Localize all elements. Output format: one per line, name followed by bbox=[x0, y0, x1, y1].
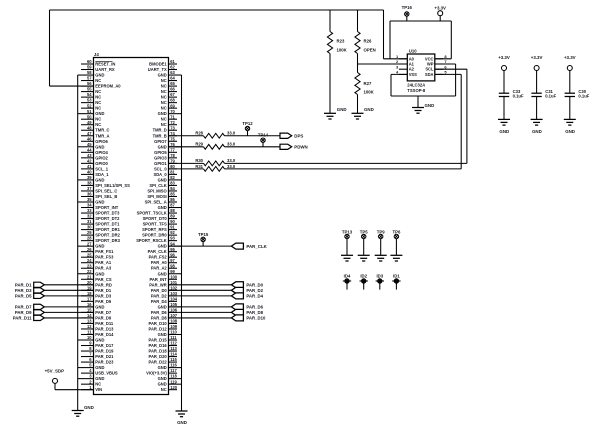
capacitor C30 bbox=[565, 71, 590, 120]
svg-text:PAR_D4: PAR_D4 bbox=[246, 294, 263, 299]
svg-text:ID3: ID3 bbox=[376, 274, 383, 279]
svg-text:SPORT_DT2: SPORT_DT2 bbox=[95, 216, 120, 221]
svg-text:GND: GND bbox=[158, 111, 167, 116]
svg-text:19: 19 bbox=[87, 285, 92, 290]
svg-text:90: 90 bbox=[170, 219, 175, 224]
svg-text:PAR_D23: PAR_D23 bbox=[95, 360, 114, 365]
svg-text:SPI_CLK: SPI_CLK bbox=[149, 183, 166, 188]
svg-text:PAR_A0: PAR_A0 bbox=[151, 260, 168, 265]
svg-text:106: 106 bbox=[170, 308, 178, 313]
port PAR_D3 bbox=[15, 288, 44, 293]
wire PAR_D0 net bbox=[169, 284, 232, 286]
port PDWN bbox=[280, 144, 308, 149]
svg-text:SPI_SEL_C: SPI_SEL_C bbox=[95, 188, 117, 193]
svg-text:32: 32 bbox=[87, 214, 92, 219]
svg-text:0.1uF: 0.1uF bbox=[578, 94, 589, 99]
svg-text:PAR_D10: PAR_D10 bbox=[149, 321, 168, 326]
svg-text:R29: R29 bbox=[195, 142, 203, 147]
svg-text:56: 56 bbox=[87, 81, 92, 86]
svg-text:SPORT_TSCLK: SPORT_TSCLK bbox=[137, 211, 167, 216]
wire SDA net bbox=[225, 74, 462, 168]
svg-text:0.1uF: 0.1uF bbox=[513, 94, 524, 99]
svg-text:54: 54 bbox=[87, 92, 92, 97]
svg-text:GND: GND bbox=[158, 382, 167, 387]
ground (C31) bbox=[531, 119, 543, 133]
svg-text:+3.3V: +3.3V bbox=[564, 55, 576, 60]
wire PAR_D3 net bbox=[44, 289, 93, 291]
svg-text:69: 69 bbox=[170, 103, 175, 108]
svg-text:GND: GND bbox=[158, 365, 167, 370]
wire PAR_D9 net bbox=[44, 311, 93, 313]
svg-text:USB_VBUS: USB_VBUS bbox=[95, 371, 118, 376]
svg-text:53: 53 bbox=[87, 98, 92, 103]
svg-text:TMR_A: TMR_A bbox=[95, 133, 109, 138]
svg-text:GND: GND bbox=[177, 420, 187, 425]
svg-text:39: 39 bbox=[87, 175, 92, 180]
svg-text:R30: R30 bbox=[195, 158, 203, 163]
svg-text:GPIO1: GPIO1 bbox=[154, 161, 167, 166]
svg-text:PAR_D11: PAR_D11 bbox=[13, 315, 32, 320]
svg-text:75: 75 bbox=[170, 136, 175, 141]
svg-text:R26: R26 bbox=[364, 38, 372, 43]
svg-text:55: 55 bbox=[87, 87, 92, 92]
svg-text:GND: GND bbox=[95, 365, 104, 370]
svg-text:64: 64 bbox=[170, 76, 175, 81]
svg-text:PAR_D9: PAR_D9 bbox=[95, 315, 112, 320]
svg-text:30: 30 bbox=[87, 225, 92, 230]
svg-text:28: 28 bbox=[87, 236, 92, 241]
svg-text:27: 27 bbox=[87, 241, 92, 246]
svg-text:J4: J4 bbox=[94, 52, 99, 57]
connector J4 (SDP 120-pin) bbox=[78, 52, 182, 394]
svg-text:76: 76 bbox=[170, 142, 175, 147]
svg-text:117: 117 bbox=[170, 368, 177, 373]
resistor R30 bbox=[169, 158, 236, 166]
svg-text:PAR_D9: PAR_D9 bbox=[15, 310, 32, 315]
svg-text:59: 59 bbox=[87, 65, 92, 70]
svg-text:98: 98 bbox=[170, 263, 175, 268]
IC U10 24LC32A bbox=[407, 49, 435, 93]
svg-text:NC: NC bbox=[161, 95, 167, 100]
svg-text:NC: NC bbox=[161, 106, 167, 111]
svg-text:NC: NC bbox=[161, 84, 167, 89]
svg-text:NC: NC bbox=[95, 100, 101, 105]
svg-text:35: 35 bbox=[87, 197, 92, 202]
svg-text:18: 18 bbox=[87, 291, 92, 296]
port PAR_D4 bbox=[231, 293, 263, 299]
svg-text:96: 96 bbox=[170, 252, 175, 257]
svg-text:PAR_D3: PAR_D3 bbox=[95, 293, 112, 298]
svg-text:34: 34 bbox=[87, 203, 92, 208]
svg-text:120: 120 bbox=[170, 385, 178, 390]
svg-text:UART_TX: UART_TX bbox=[148, 67, 167, 72]
svg-text:114: 114 bbox=[170, 352, 177, 357]
svg-text:92: 92 bbox=[170, 230, 175, 235]
svg-text:101: 101 bbox=[170, 280, 178, 285]
svg-text:PAR_D5: PAR_D5 bbox=[15, 293, 32, 298]
svg-text:PAR_FS1: PAR_FS1 bbox=[95, 249, 114, 254]
svg-text:44: 44 bbox=[87, 147, 92, 152]
svg-text:113: 113 bbox=[170, 346, 177, 351]
port PAR_D0 bbox=[231, 282, 263, 288]
wire PAR_D4 net bbox=[169, 295, 232, 297]
ground (R23) bbox=[324, 107, 347, 119]
wire EEPROM_A0 net top rail bbox=[50, 10, 408, 86]
svg-text:107: 107 bbox=[170, 313, 178, 318]
test point TP15 bbox=[202, 242, 204, 247]
svg-text:57: 57 bbox=[87, 76, 92, 81]
wire TP6 to ground bbox=[395, 239, 397, 256]
svg-text:115: 115 bbox=[170, 357, 177, 362]
wire PAR_D5 net bbox=[44, 295, 93, 297]
svg-text:70: 70 bbox=[170, 109, 175, 114]
svg-text:VSS: VSS bbox=[409, 72, 417, 77]
svg-text:16: 16 bbox=[87, 302, 92, 307]
svg-text:SPORT_RFS: SPORT_RFS bbox=[142, 227, 167, 232]
svg-text:GND: GND bbox=[95, 244, 104, 249]
svg-text:ID2: ID2 bbox=[360, 274, 367, 279]
ground (R27) bbox=[352, 107, 374, 119]
wire GND bus right bbox=[181, 75, 183, 411]
svg-text:GPIO6: GPIO6 bbox=[95, 139, 108, 144]
svg-text:NC: NC bbox=[161, 100, 167, 105]
svg-text:GND: GND bbox=[95, 271, 104, 276]
svg-text:PAR_FS2: PAR_FS2 bbox=[149, 255, 168, 260]
svg-text:PAR_D1: PAR_D1 bbox=[95, 288, 112, 293]
svg-text:GND: GND bbox=[158, 73, 167, 78]
svg-text:36: 36 bbox=[87, 192, 92, 197]
svg-text:0.1uF: 0.1uF bbox=[545, 94, 556, 99]
wire DPS net bbox=[225, 135, 281, 137]
svg-text:SCL_0: SCL_0 bbox=[154, 166, 167, 171]
power +3.3V (C30) bbox=[564, 55, 576, 71]
svg-text:SPORT_DR3: SPORT_DR3 bbox=[95, 238, 120, 243]
wire VIN net bbox=[55, 383, 94, 389]
ground (U10) bbox=[412, 103, 434, 113]
svg-text:PAR_D16: PAR_D16 bbox=[149, 343, 168, 348]
ground (TP6) bbox=[390, 255, 402, 261]
test point TP6 bbox=[392, 229, 400, 238]
test point TP13 bbox=[342, 229, 353, 238]
svg-text:104: 104 bbox=[170, 296, 178, 301]
svg-text:100K: 100K bbox=[337, 48, 348, 53]
svg-text:GPIO5: GPIO5 bbox=[154, 150, 167, 155]
port PAR_CLK bbox=[231, 243, 267, 249]
svg-text:GND: GND bbox=[84, 405, 94, 410]
svg-text:PAR_D22: PAR_D22 bbox=[149, 360, 168, 365]
svg-text:49: 49 bbox=[87, 120, 92, 125]
svg-text:72: 72 bbox=[170, 120, 175, 125]
wire PAR_CLK net bbox=[169, 245, 232, 247]
svg-text:NC: NC bbox=[95, 78, 101, 83]
svg-text:SDA: SDA bbox=[425, 72, 434, 77]
svg-text:15: 15 bbox=[87, 308, 92, 313]
svg-text:29: 29 bbox=[87, 230, 92, 235]
svg-text:PAR_D0: PAR_D0 bbox=[151, 288, 168, 293]
svg-text:+3.3V: +3.3V bbox=[498, 55, 510, 60]
svg-text:17: 17 bbox=[87, 296, 92, 301]
wire A1 net bbox=[358, 63, 408, 65]
svg-text:31: 31 bbox=[87, 219, 92, 224]
resistor R31 bbox=[169, 164, 236, 171]
svg-text:SPORT_TFS: SPORT_TFS bbox=[143, 222, 167, 227]
svg-text:TP5: TP5 bbox=[360, 229, 368, 234]
svg-text:GND: GND bbox=[95, 73, 104, 78]
svg-text:41: 41 bbox=[87, 164, 92, 169]
svg-text:PDWN: PDWN bbox=[294, 145, 307, 150]
svg-text:BMODE1: BMODE1 bbox=[149, 62, 167, 67]
svg-text:26: 26 bbox=[87, 247, 92, 252]
svg-text:80: 80 bbox=[170, 164, 175, 169]
U10 pin stubs and numbers bbox=[396, 54, 447, 75]
svg-text:PAR_A1: PAR_A1 bbox=[95, 260, 112, 265]
svg-text:GND: GND bbox=[565, 129, 575, 134]
ground (right bus) bbox=[176, 411, 188, 425]
svg-text:PAR_D13: PAR_D13 bbox=[95, 326, 114, 331]
svg-text:111: 111 bbox=[170, 335, 177, 340]
svg-text:R23: R23 bbox=[337, 38, 345, 43]
node ID1 bbox=[392, 274, 400, 290]
svg-text:67: 67 bbox=[170, 92, 175, 97]
svg-text:42: 42 bbox=[87, 158, 92, 163]
svg-text:GPIO3: GPIO3 bbox=[154, 155, 167, 160]
svg-text:GPIO0: GPIO0 bbox=[95, 161, 108, 166]
svg-text:SPORT_RSCLK: SPORT_RSCLK bbox=[136, 238, 167, 243]
svg-text:GPIO4: GPIO4 bbox=[95, 150, 108, 155]
wire PDWN net bbox=[225, 146, 281, 148]
svg-text:TP14: TP14 bbox=[258, 133, 269, 138]
wire TP9 to ground bbox=[380, 239, 382, 256]
svg-text:102: 102 bbox=[170, 285, 178, 290]
wire U10 VCC top loop bbox=[390, 16, 451, 59]
ground (left bus) bbox=[72, 405, 94, 416]
wire TP13 to ground bbox=[346, 239, 348, 256]
svg-text:66: 66 bbox=[170, 87, 175, 92]
wire TP5 to ground bbox=[363, 239, 365, 256]
svg-text:PAR_RD: PAR_RD bbox=[95, 282, 112, 287]
svg-text:GND: GND bbox=[158, 376, 167, 381]
svg-text:33.0: 33.0 bbox=[227, 158, 236, 163]
svg-text:SDA_1: SDA_1 bbox=[95, 172, 109, 177]
wire PAR_D8 net bbox=[169, 311, 232, 313]
svg-text:VIO(+3.3V): VIO(+3.3V) bbox=[146, 371, 167, 376]
svg-text:23: 23 bbox=[87, 263, 92, 268]
svg-text:58: 58 bbox=[87, 70, 92, 75]
svg-text:PAR_INT: PAR_INT bbox=[149, 277, 167, 282]
svg-text:PAR_CLK: PAR_CLK bbox=[246, 244, 267, 249]
port PAR_D5 bbox=[15, 293, 44, 298]
svg-text:85: 85 bbox=[170, 192, 175, 197]
svg-text:79: 79 bbox=[170, 158, 175, 163]
svg-text:22: 22 bbox=[87, 269, 92, 274]
svg-text:GND: GND bbox=[158, 205, 167, 210]
wire PAR_D2 net bbox=[169, 289, 232, 291]
test point TP12 bbox=[247, 131, 249, 136]
svg-text:83: 83 bbox=[170, 181, 175, 186]
svg-text:74: 74 bbox=[170, 131, 175, 136]
svg-text:PAR_D6: PAR_D6 bbox=[151, 310, 168, 315]
svg-text:GND: GND bbox=[425, 103, 435, 108]
svg-text:SPORT_DR2: SPORT_DR2 bbox=[95, 233, 120, 238]
wire PAR_D6 net bbox=[169, 306, 232, 308]
capacitor C33 bbox=[499, 71, 524, 120]
svg-text:R31: R31 bbox=[195, 164, 203, 169]
svg-text:38: 38 bbox=[87, 181, 92, 186]
svg-text:GND: GND bbox=[95, 304, 104, 309]
port PAR_D7 bbox=[15, 304, 44, 309]
svg-text:TP15: TP15 bbox=[198, 232, 209, 237]
svg-text:10: 10 bbox=[87, 335, 92, 340]
svg-text:82: 82 bbox=[170, 175, 175, 180]
svg-text:PAR_D8: PAR_D8 bbox=[246, 310, 263, 315]
ground (TP5) bbox=[358, 255, 370, 261]
svg-text:GND: GND bbox=[158, 304, 167, 309]
svg-text:116: 116 bbox=[170, 363, 177, 368]
svg-text:37: 37 bbox=[87, 186, 92, 191]
resistor R27 bbox=[355, 73, 375, 114]
svg-text:SPI_MISO: SPI_MISO bbox=[147, 188, 167, 193]
svg-text:SDA_0: SDA_0 bbox=[153, 172, 167, 177]
svg-text:81: 81 bbox=[170, 170, 175, 175]
svg-text:NC: NC bbox=[161, 122, 167, 127]
svg-text:DPS: DPS bbox=[294, 133, 303, 138]
svg-text:NC: NC bbox=[95, 122, 101, 127]
svg-text:R27: R27 bbox=[364, 81, 372, 86]
svg-text:PAR_D18: PAR_D18 bbox=[149, 349, 168, 354]
svg-text:SPORT_DT3: SPORT_DT3 bbox=[95, 211, 120, 216]
test point TP14 bbox=[262, 142, 264, 146]
svg-text:91: 91 bbox=[170, 225, 175, 230]
svg-text:+3.3V: +3.3V bbox=[434, 5, 446, 10]
test point TP16 bbox=[402, 5, 413, 16]
power +3.3V (U10) bbox=[434, 5, 446, 15]
svg-text:PAR_WR: PAR_WR bbox=[149, 282, 166, 287]
svg-text:GND: GND bbox=[95, 338, 104, 343]
wire GND bus left bbox=[77, 75, 79, 410]
svg-text:PAR_D5: PAR_D5 bbox=[95, 299, 112, 304]
port PAR_D9 bbox=[15, 310, 44, 315]
svg-text:PAR_D8: PAR_D8 bbox=[151, 315, 168, 320]
svg-text:33.0: 33.0 bbox=[227, 164, 236, 169]
svg-text:GND: GND bbox=[95, 200, 104, 205]
svg-text:GPIO7: GPIO7 bbox=[154, 139, 167, 144]
svg-text:14: 14 bbox=[87, 313, 92, 318]
svg-text:24LC32A: 24LC32A bbox=[407, 82, 425, 87]
node ID4 bbox=[343, 274, 351, 290]
svg-text:GND: GND bbox=[95, 111, 104, 116]
test point TP9 bbox=[377, 229, 385, 238]
svg-text:NC: NC bbox=[95, 95, 101, 100]
svg-text:GND: GND bbox=[158, 332, 167, 337]
svg-text:SCL_1: SCL_1 bbox=[95, 166, 108, 171]
svg-text:PAR_D15: PAR_D15 bbox=[149, 338, 168, 343]
svg-text:UART_RX: UART_RX bbox=[95, 67, 115, 72]
svg-text:TSSOP-8: TSSOP-8 bbox=[407, 88, 426, 93]
svg-text:NC: NC bbox=[95, 117, 101, 122]
power +3.3V (C31) bbox=[531, 55, 543, 71]
svg-text:TMR_D: TMR_D bbox=[153, 128, 167, 133]
svg-text:60: 60 bbox=[87, 59, 92, 64]
svg-text:SPI_SEL1/SPI_SS: SPI_SEL1/SPI_SS bbox=[95, 183, 130, 188]
svg-text:110: 110 bbox=[170, 330, 177, 335]
svg-text:+3.3V: +3.3V bbox=[531, 55, 543, 60]
svg-text:PAR_D11: PAR_D11 bbox=[95, 321, 114, 326]
svg-text:PAR_CS: PAR_CS bbox=[95, 277, 112, 282]
svg-text:TMR_C: TMR_C bbox=[95, 128, 109, 133]
svg-text:62: 62 bbox=[170, 65, 175, 70]
svg-text:33: 33 bbox=[87, 208, 92, 213]
svg-text:RESET_IN: RESET_IN bbox=[95, 62, 115, 67]
ground (C33) bbox=[498, 119, 510, 133]
svg-text:77: 77 bbox=[170, 147, 175, 152]
node ID2 bbox=[360, 274, 368, 290]
svg-text:52: 52 bbox=[87, 103, 92, 108]
svg-text:PAR_D17: PAR_D17 bbox=[95, 343, 114, 348]
svg-text:103: 103 bbox=[170, 291, 178, 296]
svg-text:GND: GND bbox=[158, 271, 167, 276]
port DPS bbox=[280, 133, 303, 138]
svg-text:NC: NC bbox=[95, 382, 101, 387]
svg-text:108: 108 bbox=[170, 319, 178, 324]
svg-text:13: 13 bbox=[87, 319, 92, 324]
svg-text:NC: NC bbox=[161, 78, 167, 83]
svg-text:88: 88 bbox=[170, 208, 175, 213]
svg-text:20: 20 bbox=[87, 280, 92, 285]
svg-text:TP6: TP6 bbox=[392, 229, 400, 234]
svg-text:89: 89 bbox=[170, 214, 175, 219]
svg-text:65: 65 bbox=[170, 81, 175, 86]
svg-text:SPORT_DT1: SPORT_DT1 bbox=[95, 222, 120, 227]
power +5V_SDP bbox=[45, 369, 64, 384]
capacitor C31 bbox=[531, 71, 556, 120]
svg-text:100K: 100K bbox=[364, 90, 375, 95]
svg-text:PAR_D21: PAR_D21 bbox=[95, 354, 114, 359]
svg-text:TP9: TP9 bbox=[377, 229, 385, 234]
svg-text:GPIO2: GPIO2 bbox=[95, 155, 108, 160]
svg-text:NC: NC bbox=[161, 117, 167, 122]
wire PAR_D11 net bbox=[44, 317, 93, 319]
svg-text:PAR_D3: PAR_D3 bbox=[15, 288, 32, 293]
ground (TP9) bbox=[375, 255, 387, 261]
svg-text:TP16: TP16 bbox=[402, 5, 413, 10]
svg-text:PAR_CLK: PAR_CLK bbox=[148, 249, 167, 254]
svg-text:PAR_D7: PAR_D7 bbox=[95, 310, 112, 315]
svg-text:100: 100 bbox=[170, 274, 178, 279]
svg-text:PAR_D2: PAR_D2 bbox=[246, 288, 263, 293]
svg-text:SPORT_DR1: SPORT_DR1 bbox=[95, 227, 120, 232]
svg-text:40: 40 bbox=[87, 170, 92, 175]
svg-text:21: 21 bbox=[87, 274, 92, 279]
svg-text:TP13: TP13 bbox=[342, 229, 353, 234]
svg-text:87: 87 bbox=[170, 203, 175, 208]
svg-text:PAR_FS3: PAR_FS3 bbox=[95, 255, 114, 260]
svg-text:SPI_SEL_B: SPI_SEL_B bbox=[95, 194, 117, 199]
svg-text:51: 51 bbox=[87, 109, 92, 114]
svg-text:11: 11 bbox=[87, 330, 92, 335]
svg-text:112: 112 bbox=[170, 341, 177, 346]
wire PAR_D7 net bbox=[44, 306, 93, 308]
svg-text:GND: GND bbox=[95, 144, 104, 149]
svg-text:119: 119 bbox=[170, 379, 177, 384]
svg-text:95: 95 bbox=[170, 247, 175, 252]
svg-text:PAR_A2: PAR_A2 bbox=[151, 266, 168, 271]
svg-text:118: 118 bbox=[170, 374, 177, 379]
svg-text:48: 48 bbox=[87, 125, 92, 130]
svg-text:61: 61 bbox=[170, 59, 175, 64]
svg-text:45: 45 bbox=[87, 142, 92, 147]
svg-text:GND: GND bbox=[158, 244, 167, 249]
svg-text:GND: GND bbox=[337, 107, 347, 112]
